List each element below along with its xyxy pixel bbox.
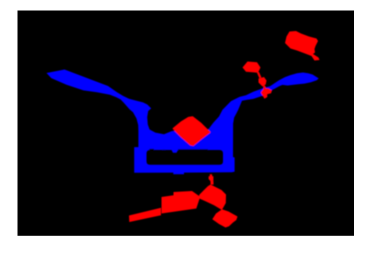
- red stem knob: [209, 176, 214, 181]
- red bottom upper blob: [199, 185, 226, 210]
- red middle piece: [259, 77, 267, 87]
- red neck link: [257, 72, 262, 78]
- red link to cross: [263, 86, 267, 90]
- blue mask: machine body with arms (hole cut via evenodd): [47, 70, 319, 175]
- black hole top extension right: [178, 149, 208, 150]
- red quad above right arm: [243, 62, 261, 73]
- red bottom-right diamond: [212, 209, 237, 227]
- red cross on right arm: [261, 88, 272, 99]
- black notch on hole top edge left: [149, 149, 154, 151]
- red top-right blob: [285, 31, 320, 61]
- red stem neck: [210, 181, 213, 185]
- red stem tip: [210, 174, 213, 176]
- red bottom-left bar: [129, 208, 161, 222]
- red bottom parallelogram: [162, 191, 201, 214]
- black image area: [18, 11, 355, 236]
- red center diamond: [173, 117, 209, 145]
- black notch on hole top edge mid-left: [162, 150, 165, 151]
